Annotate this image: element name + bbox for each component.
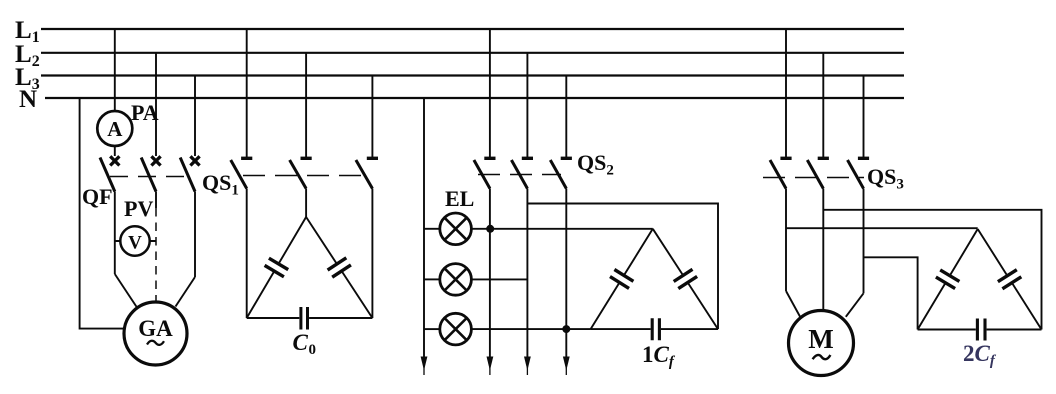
lamp EL1 xyxy=(424,213,471,245)
svg-text:EL: EL xyxy=(445,186,474,211)
QS3 pole3 contact bar xyxy=(858,157,869,160)
feeder arrow 1 xyxy=(421,357,428,376)
capacitor 2Cf right plates xyxy=(998,270,1021,289)
svg-text:N: N xyxy=(19,86,37,113)
label 1Cf xyxy=(642,342,676,370)
ammeter PA xyxy=(97,111,132,146)
wire L3 to QS2 pole3 xyxy=(565,76,567,158)
label QS1 xyxy=(202,170,239,199)
wire pole1 to motor xyxy=(786,291,801,318)
QS1 linkage dashed xyxy=(243,175,362,177)
wire L2 to QS1 pole2 xyxy=(305,53,307,157)
wire QF pole1 down xyxy=(114,192,116,275)
bus L3 xyxy=(41,74,904,76)
QF pole2 blade xyxy=(141,158,156,192)
QS1 pole3 blade xyxy=(356,160,373,189)
wire L3 to QS1 pole3 xyxy=(371,76,373,158)
label QS2 xyxy=(577,150,614,179)
wire QS3 pole3 down xyxy=(863,189,865,294)
QS2 pole3 blade xyxy=(550,160,566,189)
wire L1 to QS2 pole1 xyxy=(489,29,491,158)
bus L2 xyxy=(41,52,904,54)
svg-text:PV: PV xyxy=(124,196,153,221)
QS2 pole2 blade xyxy=(511,160,527,189)
QS3 pole1 blade xyxy=(770,160,786,189)
wire QS2 pole3 down xyxy=(565,189,567,367)
QS1 pole2 blade xyxy=(290,160,307,189)
QS2 linkage dashed xyxy=(478,174,561,176)
svg-text:M: M xyxy=(808,324,833,354)
svg-text:V: V xyxy=(128,233,142,254)
capacitor 2Cf left side wires xyxy=(918,229,978,330)
svg-text:A: A xyxy=(107,117,123,141)
QS3 pole2 contact bar xyxy=(818,157,829,160)
wire QS1 pole2 down xyxy=(305,189,307,218)
wire QS2 pole2 down xyxy=(526,189,528,367)
junction dot lamp3/QS2 pole3 xyxy=(562,325,570,333)
label L3 xyxy=(15,64,40,93)
capacitor C0 left plates xyxy=(265,258,289,277)
capacitor 2Cf bottom plates xyxy=(977,319,985,341)
capacitor 1Cf right plates xyxy=(674,269,697,288)
wire QS3 pole2 down xyxy=(822,189,824,311)
label N xyxy=(19,86,37,113)
capacitor 1Cf left plates xyxy=(610,270,633,289)
wire lamp1 row to 1Cf top xyxy=(471,228,652,230)
junction dot lamp1/QS2 pole1 xyxy=(486,225,494,233)
motor M xyxy=(789,311,854,376)
wire QS2 pole1 down xyxy=(489,189,491,367)
wire voltmeter branch xyxy=(115,240,156,242)
wire L3 to QS3 pole3 xyxy=(863,76,865,158)
feeder arrow 2 xyxy=(487,357,494,376)
capacitor 1Cf bottom wires xyxy=(591,328,718,330)
wire QF pole2 down xyxy=(155,192,157,209)
QS3 pole1 contact bar xyxy=(780,157,791,160)
label EL xyxy=(445,186,474,211)
wire QS3 pole2 to 2Cf right xyxy=(823,210,1041,330)
QF pole2 contact cross xyxy=(151,156,160,165)
capacitor C0 bottom plates xyxy=(301,307,308,330)
wire L2 to QS3 pole2 xyxy=(822,53,824,157)
wire L1 to QS1 pole1 xyxy=(246,29,248,158)
QF linkage dashed xyxy=(110,176,185,178)
wire pole2 to GA dashed xyxy=(155,208,157,303)
QF pole3 contact cross xyxy=(190,156,199,165)
capacitor C0 bottom wires xyxy=(247,317,373,319)
wire L1 to ammeter xyxy=(114,29,116,112)
wire N to GA xyxy=(80,98,124,329)
wire pole3 to GA xyxy=(176,277,196,307)
QS2 pole1 contact bar xyxy=(484,157,495,160)
wire pole1 to 2Cf top xyxy=(786,227,978,229)
QS3 pole2 blade xyxy=(807,160,823,189)
wire pole3 to 2Cf bottom-left xyxy=(864,257,918,329)
QS2 pole2 contact bar xyxy=(522,157,533,160)
wire QS3 pole1 down xyxy=(785,189,787,292)
lamp EL3 xyxy=(424,313,471,345)
capacitor 2Cf right side wires xyxy=(978,229,1042,330)
voltmeter PV xyxy=(120,226,149,255)
bus L1 xyxy=(41,28,904,30)
wire pole1 to GA xyxy=(115,274,137,308)
wire L2 to QS2 pole2 xyxy=(526,53,528,157)
QS3 pole3 blade xyxy=(848,160,864,189)
label PV xyxy=(124,196,153,221)
label QF xyxy=(82,184,113,209)
svg-text:GA: GA xyxy=(138,316,173,341)
capacitor 1Cf left side wires xyxy=(591,229,653,329)
feeder arrow 4 xyxy=(563,357,570,376)
wire QS1 pole3 down xyxy=(371,189,373,319)
capacitor 1Cf right side wires xyxy=(653,229,718,329)
bus N xyxy=(45,97,904,99)
wire lamp3 row to 1Cf bottom-left xyxy=(471,328,590,330)
QS1 pole1 blade xyxy=(231,160,247,189)
wire QS2 pole2 to 1Cf right xyxy=(527,204,718,330)
label L1 xyxy=(15,17,40,46)
label PA xyxy=(131,100,159,125)
wire pole3 to motor xyxy=(846,293,864,317)
QS1 pole1 contact bar xyxy=(241,157,252,160)
wire L3 to QF pole3 xyxy=(194,76,196,157)
capacitor C0 left side wires xyxy=(247,217,306,318)
capacitor 2Cf bottom wires xyxy=(918,329,1042,331)
label C0 xyxy=(293,330,317,358)
QF pole1 blade xyxy=(100,158,115,192)
feeder arrow 3 xyxy=(524,357,531,376)
wire QF pole3 down xyxy=(194,192,196,278)
lamp EL2 xyxy=(424,264,471,296)
wire N to lamps xyxy=(423,98,425,366)
svg-text:C: C xyxy=(293,330,309,355)
generator GA xyxy=(124,302,187,365)
label L2 xyxy=(15,41,40,70)
svg-text:PA: PA xyxy=(131,100,159,125)
label QS3 xyxy=(867,164,904,193)
QS1 pole2 contact bar xyxy=(301,157,312,160)
wire QS1 pole1 down xyxy=(246,189,248,319)
wire lamp2 row xyxy=(471,278,527,280)
QS3 linkage dashed xyxy=(763,177,864,179)
label 2Cf xyxy=(963,341,997,369)
svg-text:0: 0 xyxy=(309,342,317,358)
QS2 pole1 blade xyxy=(474,160,490,189)
capacitor C0 right plates xyxy=(328,258,351,277)
svg-text:QF: QF xyxy=(82,184,113,209)
QS2 pole3 contact bar xyxy=(561,157,572,160)
QS1 pole3 contact bar xyxy=(367,157,378,160)
wire ammeter to QF pole1 xyxy=(114,146,116,156)
capacitor 1Cf bottom plates xyxy=(652,318,659,340)
QF pole3 blade xyxy=(180,158,195,192)
wire L1 to QS3 pole1 xyxy=(785,29,787,158)
wire L2 to QF pole2 xyxy=(155,53,157,156)
QF pole1 contact cross xyxy=(110,156,119,165)
capacitor 2Cf left plates xyxy=(936,270,960,289)
capacitor C0 right side wires xyxy=(306,217,372,318)
